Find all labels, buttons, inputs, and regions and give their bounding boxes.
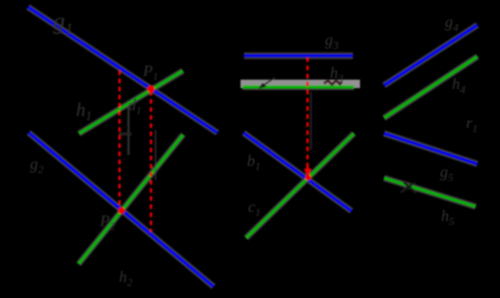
far right lower green line [384,178,476,207]
black X mark on lower right green line [401,183,415,193]
gray companion line of dash 2 [155,130,157,180]
far right upper blue line [384,25,477,85]
horizontal blue line g3 [244,54,353,57]
dark tick on dash 1 [119,133,132,136]
gray band (wide gray line) [241,80,361,88]
horizontal green line h3 [243,85,355,88]
line h1 [79,71,183,134]
pencil green line [246,133,354,238]
far right lower blue line [384,133,477,164]
black arrow mark on gray band [263,78,275,86]
pencil blue line [244,133,352,211]
red dashed vertical 2 [150,91,152,232]
line g1 [28,7,217,133]
red point 2 [118,207,125,214]
red dashed vertical 1 [118,71,120,208]
line g2 [29,133,214,287]
red point 1 [147,85,155,93]
gray companion line of dash 1 [127,106,129,155]
line h2 [79,135,184,264]
red arrowhead [304,169,311,180]
gray companion line of dash 3 [310,92,312,150]
dark red scribble on gray band [324,81,342,85]
far right upper green line [384,57,478,119]
red dashed vertical 3 with arrow [306,58,308,169]
